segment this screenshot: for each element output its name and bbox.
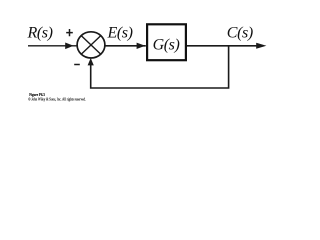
arrowhead into block	[137, 43, 146, 49]
wire feedback takeoff down and across	[91, 46, 229, 88]
svg-text:© John Wiley & Sons, Inc. All: © John Wiley & Sons, Inc. All rights res…	[28, 96, 86, 102]
summing junction circle	[77, 32, 105, 58]
block G(s) rectangle	[147, 24, 186, 60]
plus sign at summer	[66, 29, 73, 36]
minus sign at summer feedback	[74, 64, 80, 66]
summing junction X cross	[81, 36, 101, 55]
arrowhead output	[256, 43, 266, 49]
svg-text:C(s): C(s)	[227, 25, 253, 42]
arrowhead feedback into summer bottom	[88, 58, 94, 65]
arrowhead input into summer	[65, 43, 73, 50]
svg-text:G(s): G(s)	[153, 37, 180, 54]
wire block to output	[187, 45, 257, 47]
svg-text:R(s): R(s)	[27, 25, 53, 42]
svg-text:Figure P6.3: Figure P6.3	[29, 92, 45, 97]
svg-text:E(s): E(s)	[107, 25, 133, 42]
wire input R(s) to summer	[28, 45, 77, 47]
wire summer to block G(s)	[105, 45, 146, 47]
